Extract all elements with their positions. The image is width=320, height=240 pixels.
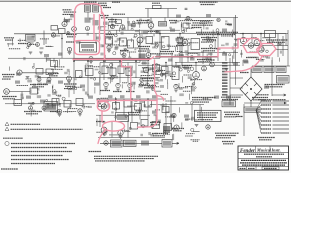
harness fan wire 2 (256, 105, 261, 110)
resistor R60 box (99, 101, 106, 107)
resistor R41 box (162, 67, 169, 74)
harness note 2 (258, 138, 275, 140)
driver tube V12b (202, 66, 207, 71)
resistor R15 box (146, 37, 153, 44)
highlight loop reverb tube (97, 101, 109, 111)
resistor R82 blob (143, 31, 148, 34)
ground symbol 19 (195, 125, 199, 127)
bridge rectifier BR1 (240, 77, 262, 101)
reverb inline comp (141, 141, 149, 146)
resistor R31 box (46, 69, 53, 75)
wire drop v35 (139, 99, 141, 120)
wire under upper run (156, 56, 219, 58)
resistor R85 blob (222, 29, 227, 32)
wire reverb drop1 (131, 99, 133, 122)
triode V9 (67, 76, 72, 81)
triode V4b (122, 53, 126, 57)
wire junction 5 (135, 60, 137, 62)
bias note block (192, 21, 214, 28)
channel label text (45, 103, 56, 110)
tube V1 envelope (51, 33, 55, 37)
resistor R42 box (172, 67, 179, 80)
wire B+ branch (145, 8, 177, 10)
title cell b (248, 168, 255, 170)
wire drop v38 (99, 115, 101, 127)
highlight branch to reverb left (122, 60, 131, 101)
caution body (94, 156, 158, 161)
grid stopper node A (27, 43, 31, 47)
resistor R14 box (128, 40, 134, 48)
wire drop v22 (242, 34, 244, 38)
label PI lower (201, 49, 219, 51)
resistor R94 blob (222, 53, 227, 56)
ground symbol 4 (89, 62, 93, 64)
reverb jack node (104, 141, 108, 145)
ground symbol 20 (225, 69, 229, 71)
triode V1b (72, 27, 77, 32)
reverb tube V16 (118, 130, 123, 135)
cathode bypass V1 (86, 27, 90, 31)
resistor R87 blob (15, 81, 20, 84)
ground symbol 11 (104, 88, 108, 90)
arrow footswitch (172, 142, 179, 144)
triode V2a (148, 23, 154, 29)
wire top right drop (235, 15, 237, 36)
resistor R92 blob (142, 62, 147, 65)
resistor R63 box (135, 104, 142, 111)
wire drop v5 (111, 63, 113, 83)
wiring detail cluster top row2 (108, 19, 236, 38)
note list line 5 (11, 159, 69, 161)
wire drop v40 (127, 115, 129, 137)
resistor R98 blob (88, 96, 93, 99)
title dense line 1 (240, 162, 287, 164)
output tube circle A (248, 43, 253, 48)
harness fan wire 8 (256, 110, 261, 129)
wire drop v14 (179, 34, 181, 63)
harness label row 8 (261, 128, 271, 130)
harness label row 3 (261, 108, 271, 110)
impedance box 2 (264, 67, 274, 73)
resistor R105 blob (244, 61, 249, 64)
wire V1 plate (64, 18, 66, 22)
potentiometer TREBLE (104, 82, 108, 86)
triode V5a (137, 37, 143, 43)
note list line 6 (11, 163, 55, 165)
label to output jack (200, 2, 218, 4)
wire drop v24 (260, 34, 262, 47)
harness fan wire 1 (256, 101, 261, 110)
label ch1 stage (66, 35, 77, 37)
wire jack drop1 (271, 60, 273, 96)
harness label row 9 (261, 132, 271, 134)
resistor R4 box (59, 29, 66, 34)
label normal channel (2, 97, 17, 99)
arrow to bias (272, 94, 286, 96)
input jack J1 box (26, 35, 36, 42)
capacitor C25 blob (44, 54, 49, 57)
wire junction 8 (159, 33, 161, 35)
wire out lower rail (252, 65, 290, 67)
impedance text 2 (265, 68, 273, 72)
wire mid drop1 (87, 62, 89, 95)
wire drop v46 (37, 92, 39, 95)
label above C1 C2 (84, 1, 97, 3)
label tone mid (104, 35, 114, 37)
coupling cap C2 box (93, 5, 99, 12)
resistor R34 box (86, 69, 94, 76)
top small box (183, 23, 189, 28)
wire drop v26 (277, 34, 279, 57)
driver tube V11 (193, 72, 200, 79)
highlight loop around stage box (75, 41, 100, 55)
label mid pi (176, 45, 184, 47)
wire junction 2 (87, 60, 89, 62)
label reverb low (96, 121, 105, 123)
highlighted stage box (80, 43, 97, 53)
label right of dark box (172, 129, 184, 131)
power tube V8 (254, 40, 260, 46)
capacitor C28 blob (168, 59, 173, 62)
resistor R106 blob (96, 37, 101, 40)
resistor R50 box (30, 88, 38, 94)
title number box (262, 167, 279, 170)
wire junction 12 (260, 33, 262, 35)
capacitor C23 blob (206, 14, 211, 17)
svg-text:Musical: Musical (256, 148, 272, 153)
tone cap CT4 (126, 68, 132, 76)
resistor R51 box (14, 100, 22, 106)
label R32 (48, 74, 59, 76)
wire T1 tap 2 (230, 87, 243, 89)
resistor R3 blob (93, 20, 99, 25)
ground symbol 8 (26, 77, 30, 79)
resistor R104 blob (214, 96, 219, 99)
label normal parts (24, 112, 42, 114)
reverb tube V15 (101, 127, 107, 133)
capacitor C22 blob (156, 31, 161, 34)
label PI values (201, 38, 217, 43)
wire drop v21 (233, 18, 235, 34)
label middle (113, 91, 122, 93)
impedance text 3 (277, 68, 285, 72)
resistor R61 box (113, 103, 120, 110)
title block divider 3 (238, 165, 289, 167)
wire pi left vert (181, 37, 183, 65)
resistor R84 blob (176, 15, 181, 18)
wire drop v41 (19, 39, 21, 43)
triode V1a (62, 21, 67, 26)
tone cap CT1 (102, 66, 108, 74)
label V10 vals (142, 79, 154, 81)
highlight reverb top run (97, 99, 157, 101)
wire drop v50 (59, 104, 61, 107)
harness wire row 7 (273, 124, 290, 126)
power dark box (163, 126, 170, 133)
impedance text 1 (253, 68, 261, 72)
note bullet circle (5, 141, 9, 145)
ground symbol 10 (67, 82, 71, 84)
wire junction 11 (242, 33, 244, 35)
wire drop v13 (171, 53, 173, 67)
harness label row 4 (261, 112, 271, 114)
wire input B lead (10, 91, 31, 93)
highlight path input arc (75, 4, 102, 42)
label under R30 (30, 85, 48, 87)
note line triangle 1 (11, 123, 41, 125)
grid stopper node B (36, 43, 40, 47)
title address line (244, 153, 284, 155)
harness wire row 5 (273, 116, 290, 118)
speaker harness bus (243, 104, 245, 136)
capacitor C35 blob (184, 115, 189, 118)
wire drop v11 (159, 34, 161, 59)
harness wire row 3 (273, 108, 290, 110)
rectifier tube V12 (210, 62, 215, 67)
capacitor C10 (185, 8, 188, 9)
speaker jack SP2 text (278, 77, 289, 82)
label bridge right (265, 85, 285, 87)
resistor R5 box (116, 20, 122, 24)
potentiometer BASS (128, 83, 132, 87)
wire junction 20 (195, 62, 197, 64)
resistor R7 value (159, 22, 165, 25)
potentiometer VOL2 (120, 25, 124, 29)
wire drop v6 (119, 63, 121, 84)
resistor R33 box (76, 71, 83, 78)
wiring detail cluster tone area (64, 63, 165, 97)
title cell a (240, 168, 246, 170)
harness fan wire 3 (256, 109, 261, 110)
wire drop v33 (115, 99, 117, 113)
coupling cap C1 box (85, 5, 91, 12)
wire junction 7 (61, 38, 63, 40)
footswitch box (162, 140, 172, 148)
highlight reverb branch vertical (155, 60, 158, 120)
wire rail pi (180, 52, 238, 54)
capacitor C31 blob (40, 100, 45, 103)
reverb out box 2 (124, 140, 137, 146)
harness fan wire 5 (256, 110, 261, 117)
wire drop v19 (217, 34, 219, 61)
notes heading (3, 137, 23, 139)
harness connector text (245, 108, 259, 111)
wire drop v25 (269, 34, 271, 43)
potentiometer SPEED (174, 84, 178, 88)
harness label row 6 (261, 120, 271, 122)
wire drop v31 (87, 12, 89, 18)
resistor R24 box (265, 31, 276, 38)
fuse box text (223, 102, 234, 106)
resistor R91 blob (80, 85, 85, 88)
ground symbol 6 (122, 58, 126, 60)
label trem (152, 134, 168, 136)
resistor R7 box (159, 22, 167, 27)
title model line (256, 156, 272, 158)
resistor R100 blob (152, 95, 157, 98)
resistor R99 blob (120, 95, 125, 98)
wire junction 10 (217, 33, 219, 35)
wiring detail cluster top row (108, 18, 229, 37)
highlight loop output tube A (243, 39, 262, 53)
bias lamp (172, 113, 176, 117)
reverb out text 1 (112, 141, 122, 146)
wire drop v28 (111, 18, 113, 25)
label right of mixer (150, 53, 161, 55)
label under legend (215, 133, 239, 138)
wire drop v43 (33, 63, 35, 67)
transformer T1 winding stack (222, 62, 228, 96)
triode V4a (107, 45, 111, 49)
reverb transformer box (116, 113, 129, 122)
harness wire row 4 (273, 112, 290, 114)
highlight loop reverb bottom (103, 121, 125, 131)
wire power mid vert (170, 96, 172, 130)
harness wire row 9 (273, 132, 290, 134)
wire drop v10 (147, 58, 149, 77)
harness fan wire 7 (256, 110, 261, 125)
wire rail reverb mid (96, 114, 150, 116)
pilot lamp (206, 125, 210, 129)
wire drop v29 (150, 28, 152, 33)
wire junction 4 (119, 60, 121, 62)
capacitor C21 blob (131, 24, 136, 27)
triode V10a (143, 67, 149, 73)
wire junction 9 (179, 33, 181, 35)
wire drop v30 (164, 18, 166, 22)
wire T1 secondary bus (229, 58, 231, 105)
wire drop v7 (127, 63, 129, 84)
wire junction 14 (147, 98, 149, 100)
label right top (221, 97, 241, 99)
title cell number (264, 168, 277, 170)
label right of V2 (169, 21, 177, 23)
title bottom vsplit 2 (255, 166, 257, 170)
stage box text2 (82, 49, 94, 51)
channel label box (44, 102, 58, 112)
ground symbol 14 (174, 90, 178, 92)
wire drop v51 (175, 63, 177, 67)
tiny label right mid (227, 24, 232, 26)
harness wire row 6 (273, 120, 290, 122)
input jack symbol B (4, 89, 10, 95)
highlight path mid vertical 2 (99, 15, 101, 41)
resistor R83 blob (170, 29, 175, 32)
grid node C (37, 78, 41, 82)
wire bridge bottom lead (250, 101, 252, 107)
highlight reverb curl (138, 120, 158, 128)
wire drop v42 (45, 39, 47, 45)
wire right long vert (235, 36, 237, 85)
stage box text (81, 44, 94, 48)
wire junction 3 (103, 60, 105, 62)
note list line 3 (11, 151, 72, 153)
svg-text:Instr.: Instr. (271, 148, 281, 153)
tone cap CT3 (118, 66, 124, 74)
grid node E (29, 106, 33, 110)
resistor R93 blob (184, 67, 189, 70)
resistor R80 blob (65, 19, 70, 22)
label input left edge (4, 38, 14, 40)
impedance box 1 (252, 67, 262, 73)
resistor R52 box (52, 99, 59, 106)
wire drop v27 (127, 18, 129, 31)
label right of C2 (103, 7, 111, 9)
resistor R81 blob (70, 15, 75, 18)
wire drop v53 (199, 105, 201, 119)
resistor R30 box (36, 69, 43, 75)
ground symbol 3 (68, 53, 72, 55)
title block divider 2 (238, 157, 289, 159)
pi note lines (196, 32, 238, 34)
label under V9 (64, 84, 77, 89)
fuse box (222, 101, 236, 107)
ground symbol 16 (78, 114, 82, 116)
wiring detail cluster driver gap (138, 67, 168, 94)
capacitor C38 blob (76, 41, 81, 44)
label above T1 (197, 60, 212, 62)
resistor R53 box (64, 101, 71, 108)
ground symbol 15 (58, 115, 62, 117)
label rectifier (206, 59, 215, 61)
wire drop v47 (47, 104, 49, 108)
wire drop v16 (195, 63, 197, 72)
label mid top (137, 21, 150, 23)
wire drop v49 (83, 104, 85, 109)
label R16 area (160, 52, 174, 54)
paper background (0, 0, 291, 173)
copyright line (1, 168, 18, 170)
harness note (236, 116, 243, 118)
wire drop v17 (202, 53, 204, 65)
wire R10 right leg (167, 9, 169, 18)
wire drop v2 (73, 34, 75, 62)
harness wire row 2 (273, 104, 290, 106)
note list line 4 (11, 155, 63, 157)
highlight output tail (225, 56, 263, 73)
impedance box 3 (276, 67, 286, 73)
wire drop v45 (21, 92, 23, 100)
capacitor C26 blob (46, 81, 51, 84)
resistor R88 blob (58, 53, 63, 56)
wire junction 15 (115, 98, 117, 100)
wire reverb drop2 (147, 99, 149, 119)
wire drop v23 (251, 34, 253, 43)
title block frame (238, 146, 289, 170)
wire reverb rail (96, 98, 166, 100)
note list line 1 (11, 143, 75, 145)
capacitor C29 blob (190, 58, 195, 61)
wire drop v9 (139, 34, 141, 63)
resistor R70 box (152, 122, 160, 129)
capacitor C30 blob (243, 60, 248, 63)
tone cap CT2 (110, 68, 116, 76)
highlight reverb vertical 2 (157, 96, 164, 101)
wiring detail cluster preamp row (100, 34, 200, 62)
ground symbol 13 (128, 89, 132, 91)
footswitch text (163, 141, 171, 146)
wire J1 drop (43, 31, 45, 46)
wire T1 tap 1 (230, 77, 243, 79)
harness fan wire 9 (256, 110, 261, 133)
ground symbol 12 (116, 89, 120, 91)
label near jacks (252, 98, 268, 100)
input jack symbol A (17, 70, 22, 75)
harness wire row 1 (273, 100, 290, 102)
label right of legend box (224, 112, 240, 117)
label above arrow (258, 99, 286, 101)
wire drop v8 (135, 63, 137, 79)
